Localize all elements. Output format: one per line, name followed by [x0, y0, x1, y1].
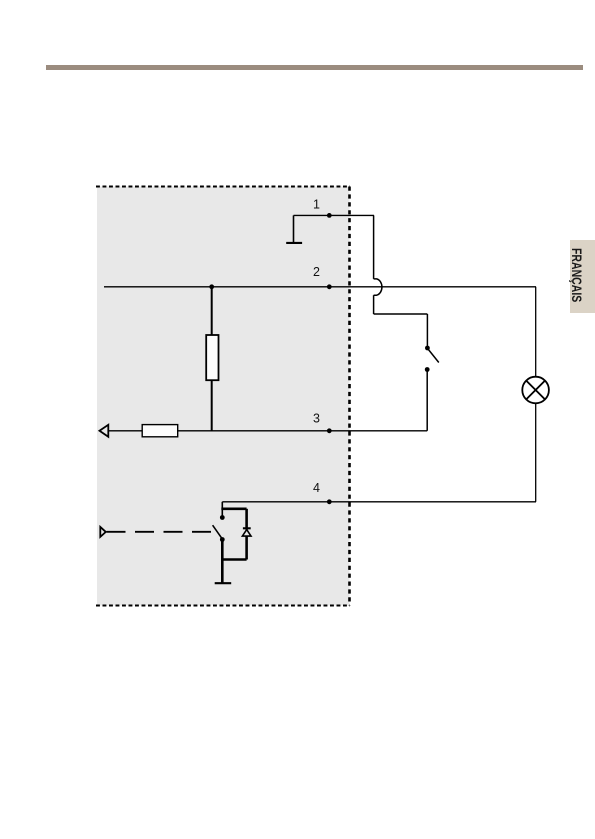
wire resistor R2 to pin3 line	[211, 380, 213, 431]
output switch bottom contact	[220, 537, 225, 542]
wire pin2 to resistor R2	[211, 287, 213, 335]
junction dot pin3 at border	[327, 428, 332, 433]
wire pin3 horizontal	[106, 430, 427, 432]
junction dot pin2 at resistor	[209, 284, 214, 289]
transistor output stage: collector drop from pin4	[221, 502, 223, 516]
junction dot pin4 at border	[327, 499, 332, 504]
wire from pin1 down with hop over pin2 wire	[374, 215, 428, 346]
lamp L1 return wire to pin4	[535, 403, 537, 502]
control input arrow	[100, 527, 106, 537]
FRANCAIS side tab	[570, 240, 595, 313]
pin 3 label	[313, 412, 320, 426]
ground symbol output	[215, 582, 232, 584]
junction dot pin2 at border	[327, 284, 332, 289]
pin 1 label	[313, 198, 320, 212]
lamp load L1 feed wire down from pin2 line	[535, 287, 537, 377]
wire pin1 horizontal	[294, 214, 375, 216]
diode D1	[242, 528, 251, 536]
top rule bar	[46, 65, 583, 70]
output switch top contact	[220, 515, 225, 520]
resistor R2 vertical	[206, 335, 218, 380]
diode D1 anode wire	[245, 509, 248, 530]
dashed control wire	[107, 531, 213, 533]
switch S1 top contact	[425, 346, 430, 351]
camera unit dashed enclosure (shaded)	[96, 187, 350, 606]
output switch blade	[213, 525, 222, 538]
svg-text:2: 2	[313, 265, 320, 279]
ground symbol pin1	[286, 242, 302, 244]
svg-text:3: 3	[313, 412, 320, 426]
wire ground drop pin1	[293, 215, 295, 242]
diode branch bottom wire	[222, 558, 247, 561]
wire pin4 horizontal	[222, 501, 536, 503]
switch S1 bottom contact	[425, 367, 430, 372]
junction dot pin1	[327, 213, 332, 218]
switch S1 blade	[428, 349, 439, 363]
lamp L1	[522, 377, 549, 404]
diode branch top wire	[221, 507, 246, 510]
svg-text:4: 4	[313, 481, 320, 495]
wire pin2 horizontal	[104, 286, 536, 288]
diode D1 cathode wire	[245, 536, 248, 559]
pin 4 label	[313, 481, 320, 495]
svg-text:1: 1	[313, 198, 320, 212]
wire switch to ground	[221, 540, 224, 583]
wire switch to pin3 line	[426, 371, 428, 431]
resistor R1 horizontal	[142, 425, 178, 437]
pin 2 label	[313, 265, 320, 279]
arrow out pin3	[100, 425, 109, 437]
